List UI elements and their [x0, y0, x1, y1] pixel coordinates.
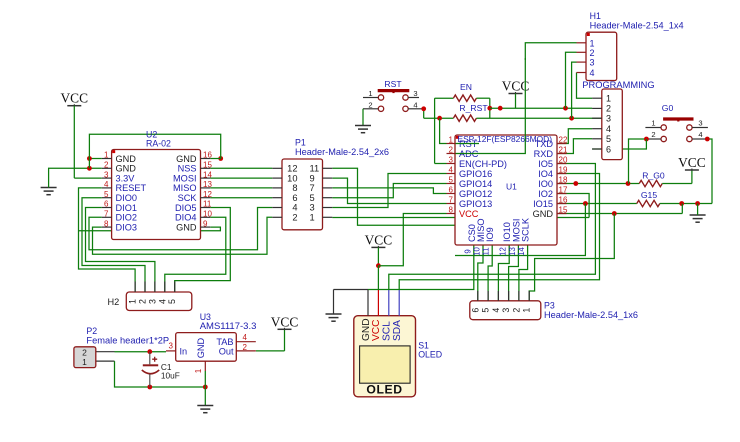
wire RST net to U1 RST pin: [440, 118, 447, 143]
wire RST overshoot: [456, 143, 480, 145]
svg-text:DIO5: DIO5: [175, 203, 196, 213]
wire U1 pin12 to P3 pin4: [498, 245, 509, 301]
svg-text:1: 1: [606, 94, 611, 104]
svg-text:5: 5: [104, 190, 109, 199]
wire MISO to P1 pin8: [210, 187, 272, 189]
ground (U3): [197, 405, 213, 407]
regulator U3 AMS1117-3.3: [176, 333, 237, 362]
wire U1 pin11 to P3 pin5: [488, 245, 492, 301]
junction RST pin4: [421, 106, 426, 111]
junction U2 pin2: [87, 166, 92, 171]
wire P1 pin9 to GPIO13: [332, 178, 446, 203]
pushbutton G0: [661, 125, 666, 130]
wire G0 pin4 loop: [707, 139, 712, 204]
PROGRAMMING pin 3: [592, 117, 602, 119]
wire EN right vertical: [489, 98, 491, 118]
svg-text:10: 10: [287, 173, 297, 183]
svg-text:RA-02: RA-02: [146, 139, 171, 149]
svg-text:Female header1*2P: Female header1*2P: [86, 336, 169, 346]
svg-text:16: 16: [203, 151, 212, 160]
svg-text:7: 7: [449, 196, 454, 205]
junction H1 pin3 / RST net: [569, 116, 574, 121]
wire P2 pin1 to GND rail: [96, 360, 115, 362]
svg-text:4: 4: [243, 333, 248, 342]
wire DIO5 to H2 pin5: [175, 208, 231, 293]
junction GND to P3: [612, 211, 617, 216]
U1 pin 21 (RXD): [557, 153, 567, 155]
svg-text:GND: GND: [196, 337, 206, 358]
svg-text:4: 4: [590, 68, 595, 78]
wire P1 pin3 to GPIO16: [332, 174, 446, 208]
svg-text:GND: GND: [176, 154, 197, 164]
svg-text:4: 4: [606, 124, 611, 134]
svg-text:IO9: IO9: [485, 227, 495, 242]
U1 pin 6 (GPIO12): [447, 193, 456, 195]
svg-text:VCC: VCC: [459, 209, 479, 219]
PROGRAMMING pin 5: [592, 138, 602, 140]
svg-text:EN: EN: [460, 82, 472, 92]
wire IO15 to P1 pin11 net: [455, 204, 585, 256]
U1 pin 19 (IO4): [557, 173, 567, 175]
OLED pin VCC: [377, 290, 379, 316]
wire H1 pin2 drop: [566, 52, 577, 108]
svg-text:5: 5: [167, 299, 177, 304]
wire RST pin4 down: [423, 109, 425, 118]
svg-text:2: 2: [243, 343, 248, 352]
svg-text:3: 3: [698, 119, 702, 128]
PROGRAMMING pin 6: [592, 148, 602, 150]
svg-text:MISO: MISO: [173, 183, 196, 193]
wire GND loop pin1-pin16: [89, 134, 220, 168]
wire IO0 to R_G0: [557, 183, 639, 185]
svg-text:1: 1: [651, 119, 655, 128]
svg-text:MOSI: MOSI: [173, 173, 196, 183]
RST pin4 stub: [408, 108, 421, 110]
svg-text:14: 14: [203, 170, 212, 179]
svg-text:DIO3: DIO3: [116, 222, 137, 232]
H1 pin 4: [577, 72, 587, 74]
U2 pin 15 (NSS): [201, 167, 211, 169]
svg-text:TXD: TXD: [535, 139, 554, 149]
junction EN net: [487, 106, 492, 111]
wire RST pin2 to ground: [362, 109, 364, 125]
svg-text:10uF: 10uF: [161, 371, 180, 381]
svg-text:6: 6: [449, 186, 454, 195]
svg-text:GPIO13: GPIO13: [459, 199, 492, 209]
svg-text:3: 3: [147, 299, 157, 304]
svg-text:GPIO16: GPIO16: [459, 169, 492, 179]
svg-text:AMS1117-3.3: AMS1117-3.3: [200, 321, 257, 332]
RST pin2 stub: [363, 108, 378, 110]
svg-text:IO5: IO5: [538, 159, 553, 169]
svg-text:R_G0: R_G0: [642, 171, 665, 181]
U2 pin 7 (DIO2): [102, 216, 112, 218]
G0 pin3 stub: [692, 127, 708, 129]
svg-text:3: 3: [104, 170, 109, 179]
svg-text:GND: GND: [176, 222, 197, 232]
svg-text:1: 1: [368, 89, 372, 98]
wire DIO0 to H2 pin2: [82, 198, 145, 292]
junction U2 pin16: [218, 156, 223, 161]
wire RXD to PROG pin5: [557, 139, 592, 154]
svg-text:7: 7: [310, 183, 315, 193]
svg-text:NSS: NSS: [178, 164, 197, 174]
U1 pin 3 (EN(CH-PD)): [447, 163, 456, 165]
junction ground branch: [695, 201, 700, 206]
svg-text:Header-Male-2.54_1x6: Header-Male-2.54_1x6: [544, 310, 638, 320]
wire U3 Out to VCC: [256, 350, 285, 352]
svg-text:8: 8: [104, 219, 109, 228]
wire H1 pin1 run: [525, 43, 576, 60]
svg-text:6: 6: [104, 200, 109, 209]
U2 pin 8 (DIO3): [102, 226, 112, 228]
U3 pin 1 GND: [204, 361, 206, 371]
wire SCK to P1 pin6: [210, 197, 272, 199]
svg-text:IO15: IO15: [533, 199, 553, 209]
junction VCC mid: [376, 263, 381, 268]
svg-text:7: 7: [104, 210, 109, 219]
U2 pin 13 (MISO): [201, 187, 211, 189]
svg-text:4: 4: [491, 308, 501, 313]
wire MOSI to P1 pin10: [210, 177, 272, 179]
svg-text:11: 11: [203, 200, 212, 209]
svg-text:1: 1: [82, 357, 87, 367]
junction H1 pin2 / EN net: [563, 106, 568, 111]
OLED screen rect: [360, 346, 411, 383]
junction U2 pin1: [87, 156, 92, 161]
wire U1 pin9 to OLED GND: [368, 245, 474, 290]
svg-text:9: 9: [203, 219, 208, 228]
wire H1 pin3 drop: [572, 62, 577, 118]
U1 pin 1 (RST): [447, 143, 456, 145]
svg-text:P1: P1: [295, 138, 306, 148]
H2 pin 1: [134, 282, 136, 293]
svg-text:15: 15: [203, 161, 212, 170]
PROGRAMMING pin 4: [592, 128, 602, 130]
svg-text:GND: GND: [116, 164, 137, 174]
svg-text:TAB: TAB: [216, 337, 233, 347]
svg-text:4: 4: [698, 130, 702, 139]
svg-text:3: 3: [413, 89, 417, 98]
svg-text:IO4: IO4: [538, 169, 553, 179]
wire RST net to PROG pin3: [476, 117, 601, 119]
wire to U1 EN pin: [435, 163, 447, 165]
svg-text:2: 2: [104, 161, 109, 170]
svg-text:GPIO12: GPIO12: [459, 189, 492, 199]
svg-text:RESET: RESET: [116, 183, 147, 193]
svg-text:17: 17: [559, 186, 568, 195]
svg-text:3.3V: 3.3V: [116, 173, 136, 183]
svg-text:2: 2: [606, 104, 611, 114]
header P1: [282, 159, 323, 230]
wire VCC to EN net: [515, 94, 517, 109]
svg-text:4: 4: [292, 203, 297, 213]
P3 pin 6: [477, 291, 479, 301]
wire VCC to OLED: [377, 266, 379, 290]
wire GND up to G15 net: [681, 204, 683, 214]
svg-text:3: 3: [606, 114, 611, 124]
svg-text:9: 9: [463, 249, 472, 253]
svg-text:EN(CH-PD): EN(CH-PD): [459, 159, 507, 169]
wire IO5 to OLED SCL: [389, 164, 596, 291]
P3 pin 4: [497, 291, 499, 301]
svg-text:11: 11: [482, 247, 491, 255]
U2 pin 10 (DIO4): [201, 216, 211, 218]
svg-text:22: 22: [559, 136, 568, 145]
chip U2 RA-02: [112, 150, 201, 240]
svg-text:8: 8: [449, 206, 454, 215]
svg-text:5: 5: [449, 176, 454, 185]
svg-text:G15: G15: [641, 190, 657, 200]
U3 pin 2 Out: [236, 350, 256, 352]
svg-text:GND: GND: [361, 318, 372, 341]
wire G0 pin2 to IO0 net: [629, 139, 647, 184]
U1 pin 2 (ADC): [447, 153, 456, 155]
svg-text:10: 10: [473, 247, 482, 256]
wire U2 pin9 GND run: [79, 227, 221, 231]
svg-text:14: 14: [517, 247, 526, 256]
U2 pin 16 (GND): [201, 158, 211, 160]
wire IO15 to G15: [557, 203, 637, 205]
wire U3 GND pin to ground: [204, 371, 206, 405]
U2 pin 2 (GND): [102, 167, 112, 169]
wire G0 pin2 to PROG pin6: [592, 139, 646, 149]
svg-text:GND: GND: [533, 209, 554, 219]
svg-text:DIO0: DIO0: [116, 193, 137, 203]
svg-text:DIO1: DIO1: [116, 203, 137, 213]
wire DIO1 to H2 pin3: [86, 208, 155, 293]
U1 pin 20 (IO5): [557, 163, 567, 165]
junction IO15: [583, 201, 588, 206]
svg-text:DIO4: DIO4: [175, 213, 196, 223]
P1 pins 6/5: [272, 197, 282, 199]
svg-text:Header-Male-2.54_2x6: Header-Male-2.54_2x6: [295, 147, 389, 157]
svg-text:H2: H2: [108, 297, 120, 307]
svg-text:4: 4: [413, 100, 417, 109]
OLED pin GND: [367, 290, 369, 316]
svg-text:VCC: VCC: [271, 314, 299, 329]
svg-text:6: 6: [606, 144, 611, 154]
RST pin3 stub: [408, 97, 419, 99]
wire IO2 riser: [557, 194, 589, 218]
P3 pin 5: [487, 291, 489, 301]
wire VCC to U2 pin 3: [73, 106, 75, 178]
wire H1 pin4 to PROG pin1: [577, 73, 593, 99]
svg-text:3: 3: [310, 203, 315, 213]
svg-text:RXD: RXD: [534, 149, 554, 159]
svg-text:1: 1: [104, 151, 109, 160]
U2 pin 3 (3.3V): [102, 177, 112, 179]
svg-text:5: 5: [606, 134, 611, 144]
svg-text:2: 2: [651, 130, 655, 139]
wire R_RST row left: [424, 117, 454, 119]
header PROGRAMMING: [602, 89, 623, 160]
svg-text:Out: Out: [219, 347, 234, 357]
U2 pin 1 (GND): [102, 158, 112, 160]
wire GND to P3 pin1: [529, 214, 614, 301]
U1 pin 18 (IO0): [557, 183, 567, 185]
svg-text:PROGRAMMING: PROGRAMMING: [582, 80, 654, 90]
svg-text:5: 5: [481, 308, 491, 313]
svg-text:3: 3: [501, 308, 511, 313]
PROGRAMMING pin 2: [592, 107, 602, 109]
junction EN net 2: [498, 106, 503, 111]
H1 pin 2: [577, 51, 587, 53]
svg-text:1: 1: [522, 308, 532, 313]
junction G0 branch: [626, 181, 631, 186]
wire U1 GND row: [557, 213, 682, 215]
P1 pins 10/9: [272, 177, 282, 179]
svg-text:SDA: SDA: [392, 320, 403, 341]
wire DIO4 to H2 pin4: [165, 217, 226, 292]
svg-text:12: 12: [287, 164, 297, 174]
junction U3 GND: [203, 385, 208, 390]
U1 pin 7 (GPIO13): [447, 203, 456, 205]
U3 pin 4 TAB: [236, 341, 256, 343]
svg-text:8: 8: [292, 183, 297, 193]
svg-text:3: 3: [590, 58, 595, 68]
junction IO0: [573, 181, 578, 186]
svg-text:3: 3: [169, 342, 174, 351]
junction G0 pin4: [705, 137, 710, 142]
U1 pin 8 (VCC): [447, 213, 456, 215]
U2 pin 4 (RESET): [102, 187, 112, 189]
G0 pin1 stub: [645, 127, 661, 129]
wire P1 pin11 run: [332, 168, 455, 225]
RST pin1 stub: [363, 97, 378, 99]
G0 pin2 stub: [646, 138, 661, 140]
wire ground to U2 pin 2: [49, 168, 102, 187]
svg-text:13: 13: [508, 247, 517, 256]
svg-text:DIO2: DIO2: [116, 213, 137, 223]
wire U1 pin13 to P3 pin3: [509, 245, 519, 301]
header H2: [126, 292, 192, 311]
svg-text:2: 2: [368, 100, 372, 109]
svg-text:5: 5: [310, 193, 315, 203]
svg-text:12: 12: [203, 190, 212, 199]
svg-text:20: 20: [559, 156, 568, 165]
wire G15 right to loop: [660, 203, 712, 205]
module S1 OLED: [354, 316, 416, 397]
wire P1 pin7 to GPIO12: [332, 188, 446, 194]
svg-text:VCC: VCC: [365, 232, 393, 247]
U2 pin 14 (MOSI): [201, 177, 211, 179]
ground (OLED): [326, 313, 342, 315]
pushbutton RST: [378, 95, 383, 100]
svg-text:21: 21: [559, 146, 568, 155]
U2 pin 9 (GND): [201, 226, 211, 228]
svg-text:2: 2: [511, 308, 521, 313]
H1 pin 1: [577, 42, 587, 44]
svg-text:VCC: VCC: [678, 155, 706, 170]
P3 pin 1: [528, 291, 530, 301]
svg-text:P2: P2: [86, 326, 97, 336]
U1 pin 16 (IO15): [557, 203, 567, 205]
wire RESET to H2 pin1: [79, 188, 136, 292]
svg-text:SCL: SCL: [382, 321, 393, 341]
P3 pin 3: [508, 291, 510, 301]
svg-text:RST: RST: [384, 79, 402, 89]
U1 pin 5 (GPIO14): [447, 183, 456, 185]
svg-text:19: 19: [559, 166, 568, 175]
svg-text:13: 13: [203, 180, 212, 189]
svg-text:4: 4: [449, 166, 454, 175]
svg-text:3: 3: [449, 156, 454, 165]
svg-text:4: 4: [157, 299, 167, 304]
svg-text:2: 2: [449, 146, 454, 155]
U3 pin 3 In: [166, 350, 176, 352]
ground (RST): [355, 125, 371, 127]
wire U1 pin10 to P3 pin6: [478, 245, 483, 301]
PROGRAMMING pin 1: [592, 97, 602, 99]
wire P1 pin1 / IO2 run: [332, 217, 589, 219]
svg-text:12: 12: [499, 247, 508, 256]
P1 pins 2/1: [272, 216, 282, 218]
header H1: [586, 32, 617, 80]
ground (U2 GND): [41, 187, 57, 189]
ground (G15): [690, 214, 706, 216]
junction RST net: [437, 116, 442, 121]
svg-text:9: 9: [310, 173, 315, 183]
wire NSS to P1 pin12: [210, 167, 272, 169]
U1 pin 22 (TXD): [557, 143, 567, 145]
svg-text:G0: G0: [662, 103, 674, 113]
OLED pin SCL: [388, 290, 390, 316]
U1 pin 17 (IO2): [557, 193, 567, 195]
U2 pin 6 (DIO1): [102, 207, 112, 209]
wire EN net to PROG pin2: [490, 107, 592, 109]
svg-text:OLED: OLED: [418, 350, 442, 360]
svg-text:11: 11: [310, 164, 320, 174]
svg-text:SCLK: SCLK: [521, 217, 531, 242]
P1 pins 4/3: [272, 207, 282, 209]
chip U1 ESP-12F: [455, 135, 557, 245]
wire P2 pin2 to U3 In: [96, 351, 115, 353]
svg-text:GND: GND: [116, 154, 137, 164]
U1 pin 15 (GND): [557, 213, 567, 215]
wire VCC to U1 pin8: [378, 214, 446, 266]
svg-text:2: 2: [590, 48, 595, 58]
svg-text:4: 4: [104, 180, 109, 189]
U2 pin 12 (SCK): [201, 197, 211, 199]
svg-text:SCK: SCK: [178, 193, 198, 203]
svg-text:1: 1: [194, 368, 203, 373]
junction C1 bottom: [147, 385, 152, 390]
svg-text:1: 1: [310, 213, 315, 223]
wire EN left vertical: [434, 98, 436, 163]
H2 pin 3: [154, 282, 156, 293]
svg-text:GPIO14: GPIO14: [459, 179, 492, 189]
wire R_G0 to VCC: [691, 170, 693, 184]
svg-text:VCC: VCC: [371, 319, 382, 341]
svg-text:2: 2: [138, 299, 148, 304]
svg-text:In: In: [180, 346, 188, 356]
junction C1 top: [147, 349, 152, 354]
U1 pin 4 (GPIO16): [447, 173, 456, 175]
svg-text:Header-Male-2.54_1x4: Header-Male-2.54_1x4: [590, 21, 684, 31]
svg-text:IO2: IO2: [538, 189, 553, 199]
svg-text:6: 6: [292, 193, 297, 203]
svg-text:OLED: OLED: [366, 383, 402, 397]
capacitor C1: [149, 352, 151, 365]
junction G0 pin2: [644, 137, 649, 142]
svg-text:R_RST: R_RST: [459, 103, 488, 113]
svg-text:1: 1: [449, 136, 454, 145]
svg-text:VCC: VCC: [61, 91, 89, 106]
header P2: [74, 347, 96, 368]
svg-text:1: 1: [128, 299, 138, 304]
svg-text:6: 6: [470, 308, 480, 313]
